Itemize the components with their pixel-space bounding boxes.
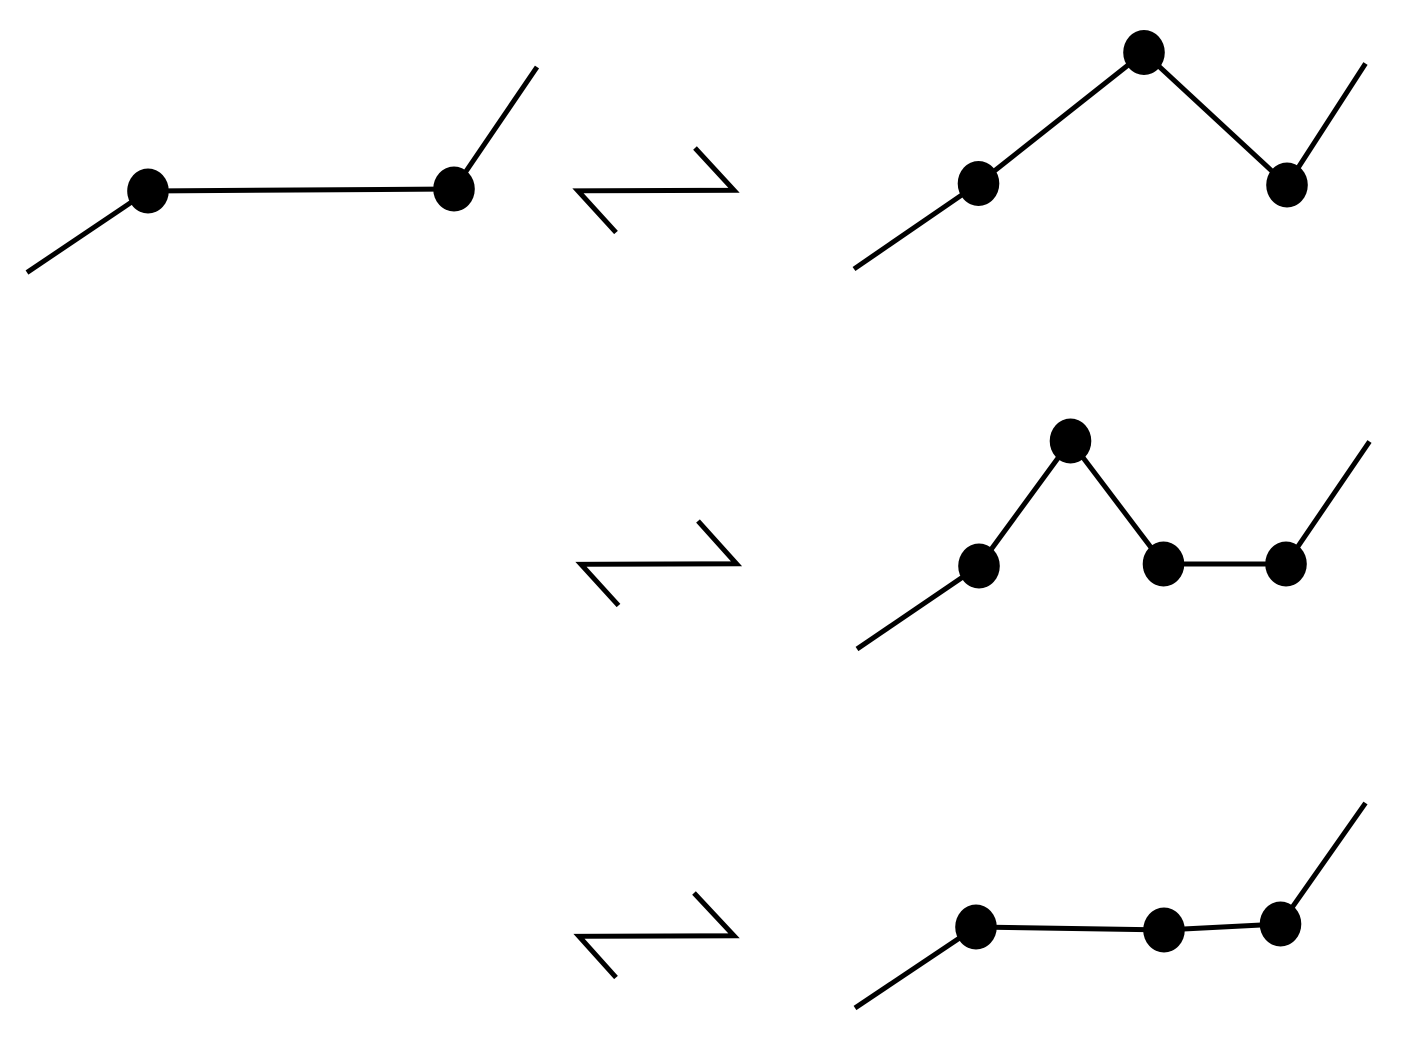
equilibrium arrow 3 <box>579 893 734 978</box>
node A1 (bead) <box>127 169 169 214</box>
node C1 (bead) <box>958 544 1000 589</box>
equilibrium arrow 1 <box>578 148 734 233</box>
node B3 (bead) <box>1266 163 1308 208</box>
wire: chain D left tail <box>855 927 976 1008</box>
wire: chain D bond 2-3 <box>1164 924 1281 930</box>
wire: chain C bond 1-2 <box>979 441 1071 566</box>
wire: chain C left tail <box>857 566 979 649</box>
node D3 (bead) <box>1260 902 1302 947</box>
wire: chain B left tail <box>854 184 979 270</box>
wire: chain C right tail <box>1286 442 1370 565</box>
wire: chain D bond 1-2 <box>976 927 1164 930</box>
wire: chain C bond 3-4 <box>1164 562 1287 567</box>
wire: chain C bond 2-3 <box>1071 441 1164 564</box>
wire: chain A left tail <box>27 191 148 273</box>
node D2 (bead) <box>1143 908 1185 953</box>
node D1 (bead) <box>955 905 997 950</box>
wire: chain A right tail <box>454 67 537 189</box>
node B1 (bead) <box>958 161 1000 206</box>
wire: chain B bond 1-2 <box>979 53 1145 184</box>
node C3 (bead) <box>1143 542 1185 587</box>
wire: chain B right tail <box>1287 64 1366 186</box>
node C2 (bead) <box>1050 419 1092 464</box>
node B2 (bead) <box>1123 30 1165 75</box>
wire: chain B bond 2-3 <box>1144 53 1287 186</box>
node A2 (bead) <box>433 167 475 212</box>
wire: chain A bond 1-2 <box>148 189 454 191</box>
node C4 (bead) <box>1265 542 1307 587</box>
equilibrium arrow 2 <box>581 521 737 606</box>
wire: chain D right tail <box>1281 803 1366 924</box>
